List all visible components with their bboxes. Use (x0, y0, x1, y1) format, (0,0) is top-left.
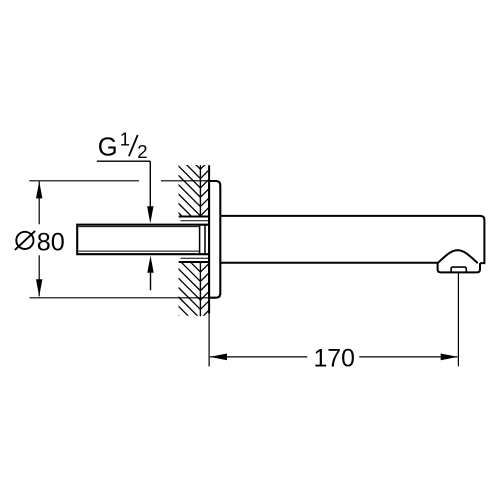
dim Ø80: label (16, 232, 33, 249)
svg-text:1: 1 (120, 129, 130, 150)
dim 170: spout outlet extension line (457, 273, 459, 366)
dim Ø80: dimension line (38, 181, 40, 296)
svg-text:G: G (98, 133, 118, 161)
wall hatch right strokes (200, 160, 209, 337)
dim 170: wall extension line (208, 314, 210, 367)
dim G1/2: fraction slash (129, 135, 138, 156)
dim 170: dimension line (210, 356, 458, 358)
dim Ø80: arrow down (36, 279, 42, 296)
aerator housing dome curve (438, 250, 478, 263)
dim G1/2: leader underline (97, 160, 151, 162)
svg-text:170: 170 (314, 346, 355, 373)
dim 170: right arrow (441, 354, 458, 361)
wall face line (208, 165, 210, 314)
wall hatch center line (199, 165, 201, 316)
aerator insert (451, 267, 466, 272)
pipe socket in wall (179, 217, 209, 263)
svg-text:80: 80 (37, 228, 65, 256)
dim Ø80: top extension line (29, 180, 209, 182)
flange (wall escutcheon) (209, 181, 220, 298)
svg-text:2: 2 (137, 141, 147, 162)
threaded shaft G1/2 (77, 225, 209, 255)
dim Ø80: arrow up (36, 181, 42, 198)
shaft thread lines (79, 227, 200, 252)
pipe socket thread lines (181, 221, 210, 259)
dim Ø80: bottom extension line (30, 297, 210, 299)
shaft end ring lines (200, 225, 205, 255)
spout tube outline (220, 216, 484, 263)
dim 170: left arrow (210, 354, 227, 361)
dim G1/2: lower arrow tail (150, 272, 152, 290)
aerator housing (438, 263, 480, 273)
dim G1/2: leader line (149, 161, 151, 207)
dim G1/2: arrow down to shaft top (147, 206, 153, 223)
dim G1/2: arrow up to shaft bottom (147, 256, 153, 273)
wall hatch left strokes (178, 147, 200, 338)
